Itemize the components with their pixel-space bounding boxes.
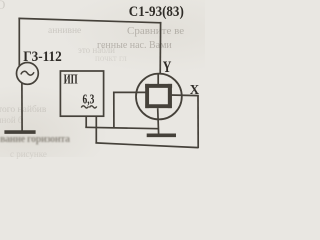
AC terminal tilde 1 (81, 106, 88, 108)
generator G1 (Г3-112) circle with sine (17, 63, 39, 85)
bleed-through text very bottom (10, 149, 47, 159)
bleed-through text mid line2 left part (78, 45, 115, 55)
bleed-through text top right line 1 (127, 25, 184, 37)
wire left loop vertical (left plate down to wire A) (113, 92, 115, 129)
wire X lead (right plate to corner) (170, 94, 199, 97)
bleed-through smudged text bottom (0, 134, 70, 145)
svg-text:ИП: ИП (64, 71, 78, 86)
svg-text:6,3: 6,3 (83, 92, 95, 107)
wire left plate lead (114, 91, 147, 93)
AC terminal tilde 2 (90, 106, 97, 108)
bleed-through mark top left corner (0, 0, 5, 13)
svg-text:X: X (190, 82, 199, 97)
wire left vertical (top corner down to generator) (18, 18, 20, 67)
bleed-through text line3 faint (95, 53, 127, 63)
bleed-through text lower left (0, 115, 23, 125)
wire right vertical of X loop (197, 96, 199, 149)
wire generator to ground (21, 83, 23, 131)
wire top horizontal (generator to oscilloscope input) (18, 18, 161, 22)
bleed-through text top middle (48, 26, 81, 36)
wire pin2 down from box (95, 116, 97, 143)
svg-text:С1-93(83): С1-93(83) (129, 4, 184, 20)
ground bar of CRT (147, 134, 176, 138)
wire bottom loop (pin2 to X lead corner) (95, 143, 198, 148)
bleed-through text top right line 2 (97, 40, 172, 51)
ground bar of generator (4, 130, 35, 134)
wire Y input vertical (top corner down to CRT) (159, 22, 161, 75)
wire pin1 down from box (85, 116, 87, 127)
svg-text:Г3-112: Г3-112 (23, 49, 62, 65)
bleed-through text mid left (0, 105, 46, 115)
svg-text:Y: Y (163, 59, 172, 76)
wire pin1 to CRT ground stem (85, 127, 158, 128)
measuring device box ИП (60, 71, 103, 116)
CRT tube U1 (circle with deflection plates) (136, 74, 182, 134)
